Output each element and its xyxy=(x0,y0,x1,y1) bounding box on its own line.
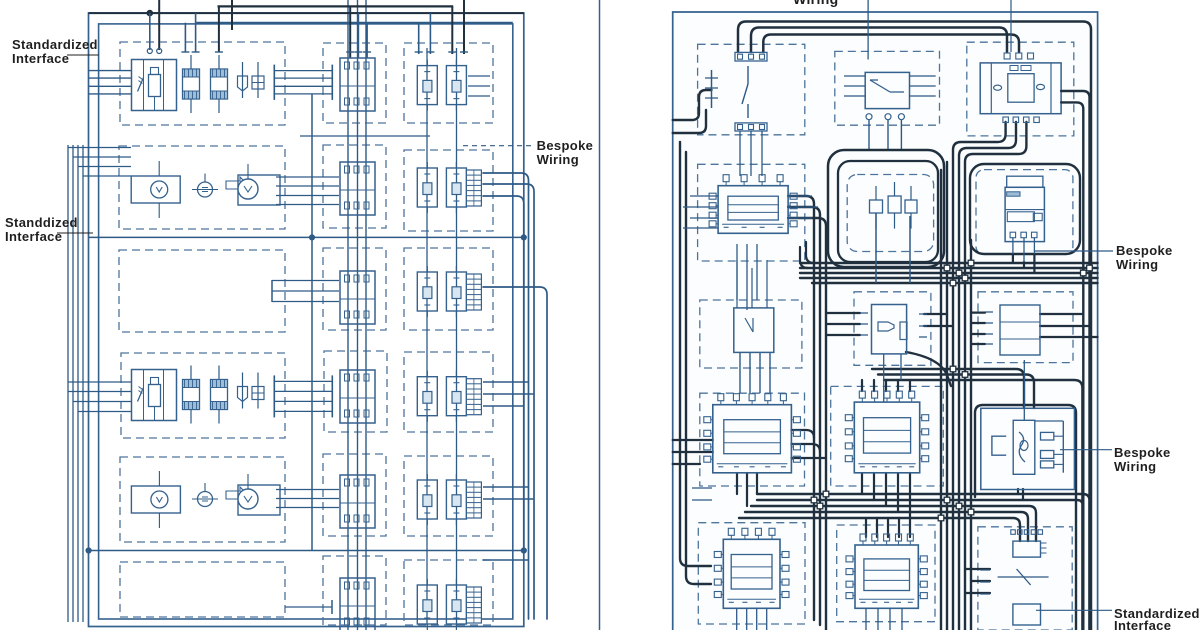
circuit breaker CB2 xyxy=(132,370,177,421)
svg-text:Interface: Interface xyxy=(5,229,62,244)
contactor K1 xyxy=(340,58,375,111)
dashed group box C1 xyxy=(404,43,493,123)
relay RB5 xyxy=(446,474,466,525)
switch S4 xyxy=(252,373,264,409)
PL2 left stubs xyxy=(683,196,718,228)
row2 output wires xyxy=(276,177,339,205)
RR2 wire loop xyxy=(970,164,1080,254)
RM1 left stubs xyxy=(844,76,865,96)
row6 output wire xyxy=(285,600,332,614)
mid riser wire xyxy=(309,94,314,551)
right panel enclosure xyxy=(673,12,1098,630)
row4 input wires xyxy=(68,382,131,412)
RL1 to PL2 connector wires xyxy=(740,131,762,176)
PL4 right exit wires xyxy=(791,430,826,458)
RR4 wrap wire xyxy=(975,405,1076,630)
dashed group box A3 xyxy=(119,250,285,332)
row1 input wires xyxy=(89,71,132,94)
label standardized interface top-left xyxy=(12,37,99,66)
relay RB4 xyxy=(446,371,466,422)
device box RR4 xyxy=(981,408,1075,489)
terminal strip TS1 top xyxy=(735,52,767,61)
fuse F4 xyxy=(211,366,228,424)
PM4 top feed drops xyxy=(862,380,910,391)
PL2 right stubs xyxy=(788,196,818,218)
svg-text:Bespoke: Bespoke xyxy=(537,138,594,153)
terminal connector TC4 xyxy=(466,379,481,415)
fuse F2 xyxy=(211,55,228,113)
row2 input wires xyxy=(68,148,131,177)
dashed group box RL4 xyxy=(700,393,805,486)
RM3 left feed wires xyxy=(826,313,860,335)
drive unit RR1 xyxy=(980,63,1061,114)
left column riser wire 1 xyxy=(680,142,711,566)
RR1 top thin lead xyxy=(1010,0,1012,52)
PLC module PM4 xyxy=(845,391,928,473)
contactor K4 xyxy=(340,370,375,423)
RR1 bottom exit wires xyxy=(953,122,1026,630)
relay RB3 xyxy=(446,266,466,317)
dashed group box A5 xyxy=(120,457,285,542)
top feed line 2 xyxy=(89,10,524,16)
label wiring top cut xyxy=(793,0,839,7)
right exit wire row2 b xyxy=(483,184,534,619)
PL4 bottom drops xyxy=(737,473,757,506)
dashed group box C3 xyxy=(404,248,493,330)
fuse F3 xyxy=(183,366,200,424)
svg-text:Interface: Interface xyxy=(12,51,69,66)
right exit wire row3 xyxy=(483,287,547,619)
channel M-R extra wires xyxy=(941,162,971,630)
row link bus xyxy=(300,135,430,137)
PM5 bottom drops xyxy=(866,608,902,630)
dashed group box C6 xyxy=(404,560,493,625)
diagonal wire RM3 to bundle xyxy=(906,352,951,386)
dashed group box RL5 xyxy=(698,523,805,624)
contactor K6 xyxy=(340,578,375,630)
dashed group box RM3 xyxy=(854,292,931,366)
left column riser wire 2 xyxy=(686,152,711,584)
PL4 left feed wires xyxy=(673,440,713,464)
contactor column riser wires xyxy=(348,0,366,630)
RL3 to PL4 wires xyxy=(740,352,770,393)
dashed group box C2 xyxy=(404,150,493,231)
connector ladder row4 xyxy=(274,375,332,417)
right exit stubs row4 xyxy=(483,382,534,406)
dashed group box A4 xyxy=(121,353,285,438)
RM1 terminal drop wires xyxy=(869,120,901,151)
svg-text:Wiring: Wiring xyxy=(793,0,839,7)
RR3 right exit wires xyxy=(1040,314,1098,337)
PLC module PL5 xyxy=(714,528,789,608)
starter ST1 xyxy=(226,164,280,205)
top feed wire 2 xyxy=(751,28,1007,53)
relay RB6 xyxy=(446,579,466,630)
PM5 top feeds xyxy=(866,518,910,537)
horizontal bundle mid1 xyxy=(800,263,1098,283)
meter M1 xyxy=(131,161,180,218)
RR2 bottom drop wires xyxy=(1013,254,1035,273)
connector ladder row1 xyxy=(274,65,332,100)
fuse group RM2 xyxy=(870,182,918,229)
dashed group box A6 xyxy=(120,562,285,617)
terminal connector TC2 xyxy=(466,170,481,206)
drive unit RR2 xyxy=(1005,176,1044,241)
RM1 right stubs xyxy=(910,76,936,96)
RR3 left feed wires xyxy=(971,313,985,344)
dashed group box RR5 xyxy=(978,527,1072,630)
right exit wire row2 a xyxy=(483,173,529,619)
svg-text:Standardized: Standardized xyxy=(12,37,98,52)
svg-text:Standdized: Standdized xyxy=(5,215,78,230)
svg-text:Interface: Interface xyxy=(1114,618,1171,630)
dashed group box RM1 xyxy=(835,51,940,125)
right exit wire row2 c xyxy=(483,196,524,551)
RR5 left feed wires xyxy=(965,569,990,593)
dashed group box RM5 xyxy=(837,525,935,622)
RR1 side exit wires xyxy=(1061,91,1089,630)
relay RA3 xyxy=(417,266,437,317)
starter ST2 xyxy=(226,474,280,515)
relay RA4 xyxy=(417,371,437,422)
standardized module RR5 xyxy=(998,541,1049,625)
left panel outer enclosure xyxy=(89,13,524,627)
row5 output wires xyxy=(276,490,339,508)
meter M2 xyxy=(131,471,180,528)
PLC module PL2 xyxy=(709,175,797,234)
RR1 top terminals xyxy=(1004,53,1033,59)
svg-text:Wiring: Wiring xyxy=(1114,459,1156,474)
label bespoke wiring center xyxy=(463,138,593,167)
dashed group box B2 xyxy=(323,145,386,228)
RM3 bottom thin drop xyxy=(884,354,901,402)
terminal connector TC5 xyxy=(466,482,481,518)
relay RB2 xyxy=(446,162,466,213)
PL4 left stubs xyxy=(692,488,712,500)
row bus 2 xyxy=(86,548,526,553)
relay RA6 xyxy=(417,579,437,630)
left border feed wire 2 xyxy=(673,110,706,133)
terminal strip TS1 bottom xyxy=(735,123,767,131)
RM2 fuse exit wires xyxy=(876,213,910,283)
contactor K5 xyxy=(340,475,375,528)
bundle corner joins xyxy=(800,242,814,268)
relay RA1 xyxy=(417,60,437,111)
circuit breaker CB1 xyxy=(132,60,177,111)
top feed wire 3 xyxy=(763,35,1019,53)
dashed group box RR2 xyxy=(976,170,1073,255)
RM1 bottom terminals xyxy=(866,114,904,120)
PL2 right exit wires xyxy=(788,196,826,630)
PM4 bottom to bundle xyxy=(862,473,910,518)
RR5 top terminal strip xyxy=(1011,530,1043,535)
right exit stubs row5 xyxy=(483,487,534,560)
PL2 bottom drops xyxy=(737,244,757,310)
svg-text:Wiring: Wiring xyxy=(537,152,579,167)
dashed group box B1 xyxy=(323,43,386,123)
crossing hop beads xyxy=(811,260,1092,521)
relay column riser wires xyxy=(427,48,457,625)
top feed drops xyxy=(147,0,468,58)
wiring label leader top xyxy=(867,0,869,60)
device D1 xyxy=(192,174,218,198)
dashed group box RR3 xyxy=(978,292,1073,363)
RR1 bottom terminals xyxy=(1003,117,1039,123)
PLC module PM5 xyxy=(846,534,927,608)
RR4 bottom drops xyxy=(1018,489,1023,500)
label standardized interface mid-left xyxy=(5,215,93,244)
dashed group box B5 xyxy=(323,454,386,536)
dashed group box C4 xyxy=(404,352,493,432)
svg-text:Bespoke: Bespoke xyxy=(1116,243,1173,258)
RM3 side ticks xyxy=(860,313,927,337)
top feed line 3 xyxy=(197,22,513,24)
top feed line 1 xyxy=(218,5,454,7)
left panel inner enclosure xyxy=(99,24,513,619)
dashed group box A1 xyxy=(120,42,285,125)
relay logic box RM1 device xyxy=(865,72,909,108)
terminal connector TC3 xyxy=(466,274,481,310)
switch box RL3 xyxy=(734,308,774,353)
left border feed wire 1 xyxy=(673,90,712,120)
dashed group box RL3 xyxy=(700,300,802,368)
row bus 1 xyxy=(89,235,527,240)
label bespoke wiring right1 xyxy=(1034,243,1173,272)
left channel wires xyxy=(68,145,83,622)
connector box RR3 xyxy=(985,305,1040,355)
RL3 top wires xyxy=(737,260,767,308)
terminal connector TC6 xyxy=(466,587,481,623)
device D2 xyxy=(192,483,218,507)
fuse F1 xyxy=(183,55,200,113)
dashed group box RL2 xyxy=(698,164,805,261)
RM2 wire loop xyxy=(828,150,944,267)
disconnect switch DS1 xyxy=(705,66,748,118)
switch S2 xyxy=(252,62,264,98)
top feed wire 1 xyxy=(738,22,1091,630)
nozzle box RM3 xyxy=(872,305,908,354)
dashed group box A2 xyxy=(119,146,285,229)
dashed group box RR1 xyxy=(967,42,1074,136)
svg-text:Wiring: Wiring xyxy=(1116,257,1158,272)
dashed group box RL1 xyxy=(698,44,805,135)
relay RA2 xyxy=(417,162,437,213)
RM3 right exit wires xyxy=(924,314,953,326)
label bespoke wiring right2 xyxy=(1060,445,1171,474)
label standardized interface bottom-right xyxy=(1036,606,1200,630)
RR2 bottom terminal symbols xyxy=(1010,232,1037,238)
paper tint wash xyxy=(672,12,1098,630)
contactor K2 xyxy=(340,162,375,215)
RR5 left stubs xyxy=(980,570,990,594)
switch S3 xyxy=(238,373,248,409)
row3 output wires xyxy=(272,280,339,302)
RM2 wire loop inner xyxy=(838,161,938,262)
dashed group box RM2 xyxy=(847,175,933,252)
dashed group box B4 xyxy=(324,351,387,432)
dashed group box B6 xyxy=(323,556,386,625)
dashed group box C5 xyxy=(404,456,493,536)
contactor K3 xyxy=(340,271,375,324)
relay row1 right stubs xyxy=(468,76,490,96)
relay RB1 xyxy=(446,60,466,111)
dashed group box RM4 xyxy=(831,386,944,486)
horizontal bundle mid2 xyxy=(872,369,1082,630)
svg-text:Bespoke: Bespoke xyxy=(1114,445,1171,460)
switch S1 xyxy=(238,62,248,98)
RR2 bottom drops xyxy=(1013,238,1035,262)
PL5 bottom drops xyxy=(737,608,767,630)
horizontal bundle low xyxy=(739,494,1090,630)
RR4 center pass wire xyxy=(1023,360,1025,420)
PLC module PL4 xyxy=(704,394,801,473)
relay RA5 xyxy=(417,474,437,525)
center divider line xyxy=(599,0,601,630)
dashed group box B3 xyxy=(323,248,386,330)
